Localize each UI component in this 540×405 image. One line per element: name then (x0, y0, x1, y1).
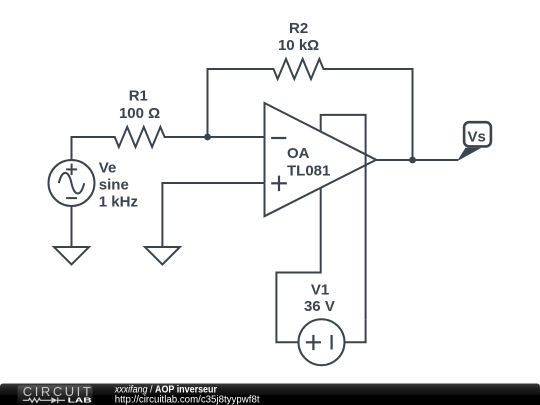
svg-text:http://circuitlab.com/c35j8tyy: http://circuitlab.com/c35j8tyypwf8t (115, 394, 260, 405)
svg-text:V1: V1 (311, 281, 329, 298)
svg-text:Ve: Ve (99, 159, 117, 176)
svg-text:OA: OA (287, 145, 310, 162)
svg-text:R1: R1 (129, 88, 148, 105)
svg-text:1 kHz: 1 kHz (99, 194, 138, 211)
svg-text:sine: sine (99, 176, 129, 193)
svg-text:36 V: 36 V (304, 298, 335, 315)
svg-text:LAB: LAB (68, 396, 93, 405)
svg-text:Vs: Vs (468, 128, 486, 145)
svg-text:R2: R2 (289, 20, 308, 37)
svg-text:100 Ω: 100 Ω (119, 105, 160, 122)
svg-text:TL081: TL081 (287, 162, 330, 179)
svg-text:10 kΩ: 10 kΩ (278, 37, 319, 54)
